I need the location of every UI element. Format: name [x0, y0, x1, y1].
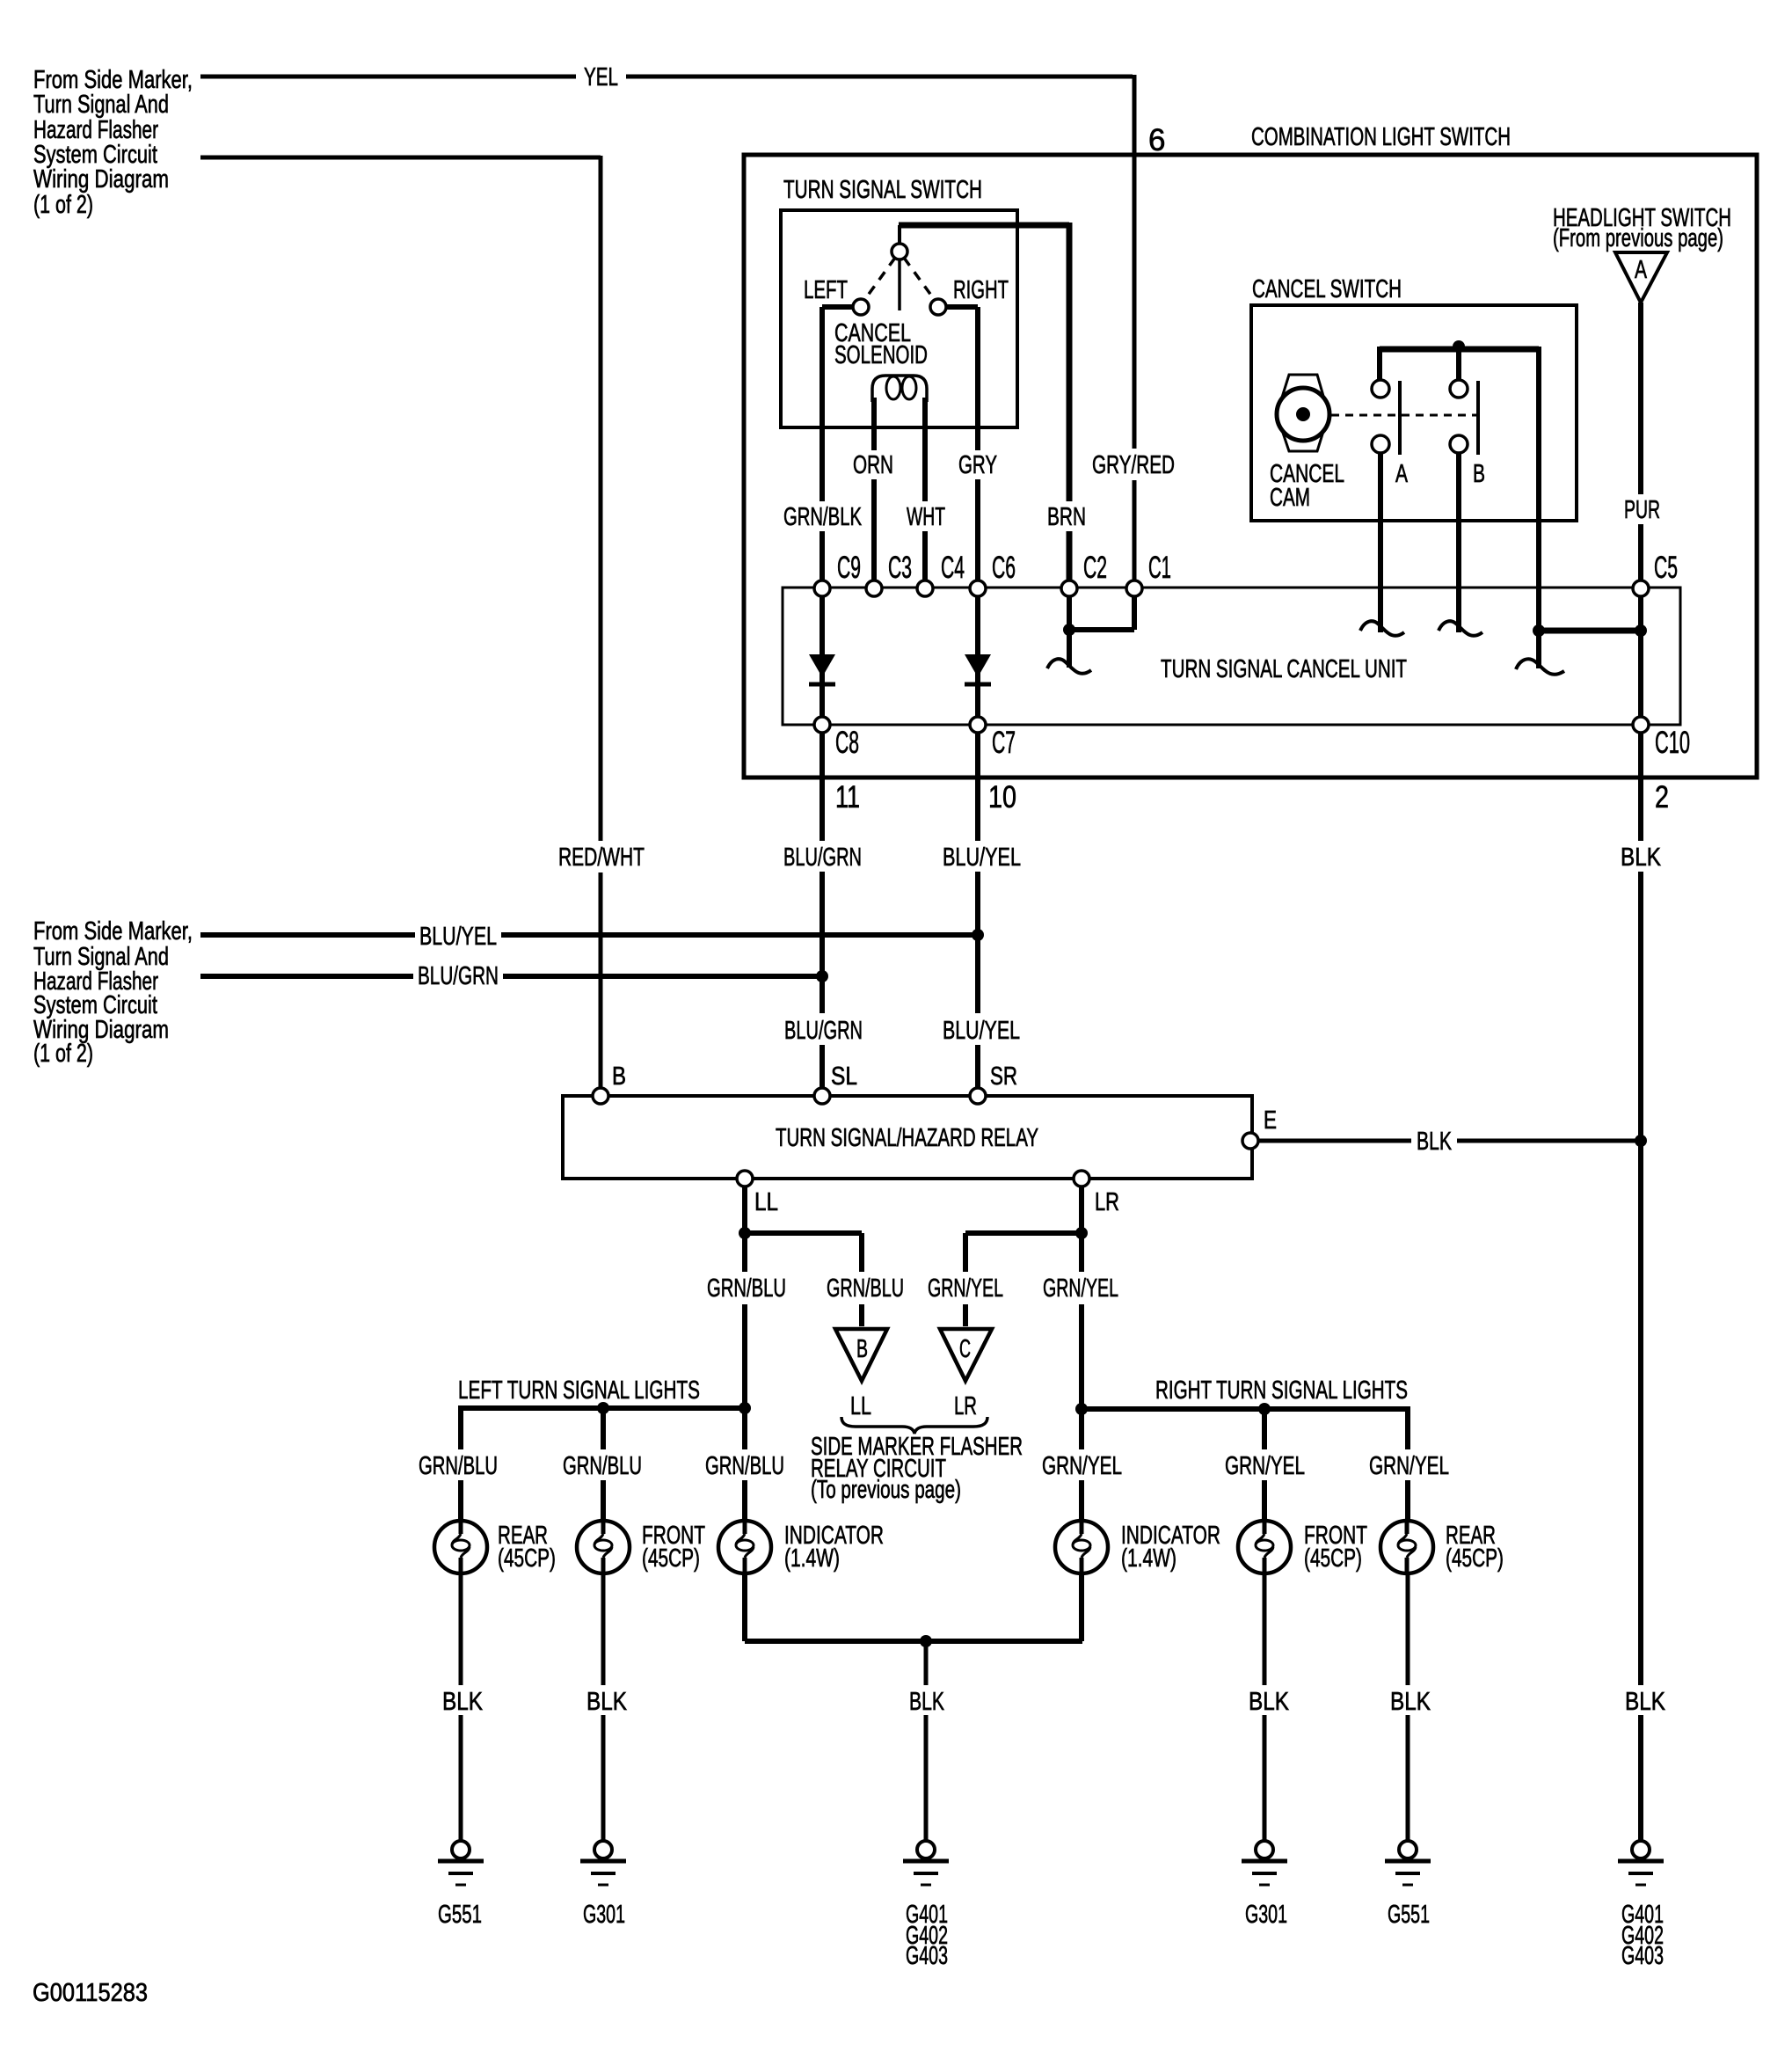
svg-text:LR: LR — [1095, 1188, 1119, 1216]
hook below C2 junction — [1047, 659, 1091, 674]
svg-text:BLU/YEL: BLU/YEL — [419, 923, 497, 951]
turn signal switch common contact — [892, 244, 907, 259]
wire left front bulb to ground — [601, 1573, 606, 1841]
svg-text:B: B — [1473, 460, 1485, 488]
svg-text:TURN SIGNAL/HAZARD RELAY: TURN SIGNAL/HAZARD RELAY — [776, 1124, 1038, 1152]
svg-text:C4: C4 — [941, 551, 965, 585]
svg-text:BLK: BLK — [586, 1688, 628, 1716]
note text block (middle left) — [33, 917, 193, 1068]
label BLU/GRN above SL — [780, 1013, 868, 1045]
svg-text:(45CP): (45CP) — [642, 1544, 700, 1573]
svg-text:GRY/RED: GRY/RED — [1092, 451, 1175, 479]
svg-text:SL: SL — [831, 1062, 857, 1091]
svg-text:SR: SR — [990, 1062, 1017, 1091]
wire right front drop — [1262, 1409, 1267, 1521]
hook below cancel switch right drop — [1516, 659, 1564, 675]
label BLU/GRN below C8 — [779, 841, 867, 872]
svg-text:(45CP): (45CP) — [1304, 1544, 1362, 1573]
wire cancel solenoid left lead to C3 — [871, 398, 877, 585]
svg-text:RED/WHT: RED/WHT — [558, 843, 645, 872]
wire feed 2 (horizontal, to RED/WHT) — [200, 156, 601, 160]
wire E to BLK — [1257, 1139, 1641, 1143]
label BRN — [1043, 501, 1090, 531]
relay pin LR — [1074, 1171, 1089, 1186]
wire link to PUR line — [1539, 628, 1641, 634]
turn signal cancel unit box — [783, 588, 1680, 725]
junction LR branch — [1075, 1227, 1088, 1239]
svg-text:GRN/YEL: GRN/YEL — [1042, 1452, 1122, 1480]
wire cancel switch contact A drop — [1378, 452, 1383, 632]
svg-text:GRN/YEL: GRN/YEL — [1043, 1274, 1118, 1303]
connector C4 — [917, 580, 933, 596]
ground G401 G402 G403 right — [1618, 1841, 1664, 1885]
junction BLU/GRN feed to SL line — [816, 970, 828, 982]
wire right front bulb to ground — [1263, 1573, 1267, 1841]
label BLK right front — [1244, 1685, 1293, 1715]
svg-text:COMBINATION LIGHT SWITCH: COMBINATION LIGHT SWITCH — [1251, 123, 1511, 151]
svg-text:(From previous page): (From previous page) — [1553, 224, 1723, 252]
wire turn signal switch common to BRN / C2 — [899, 223, 1069, 229]
cancel switch contact B bottom — [1450, 435, 1468, 453]
svg-text:GRN/YEL: GRN/YEL — [928, 1274, 1003, 1303]
relay pin SR — [970, 1088, 986, 1104]
svg-text:C1: C1 — [1148, 551, 1171, 585]
label GRN/BLU left bus col2 — [558, 1449, 646, 1480]
svg-text:LL: LL — [754, 1188, 778, 1216]
svg-text:10: 10 — [988, 780, 1016, 814]
wire BLU/GRN feed (horizontal) — [200, 974, 822, 979]
hook below cancel switch contact A — [1360, 621, 1404, 636]
cancel switch contact A top — [1372, 380, 1389, 398]
wire left rear drop — [458, 1405, 463, 1521]
wire YEL/GRY-RED vertical into pin 6 and C1 — [1133, 75, 1137, 582]
label BLK far right — [1621, 1685, 1673, 1715]
svg-text:C2: C2 — [1083, 551, 1107, 585]
wire left rear bulb to ground — [459, 1573, 463, 1841]
svg-text:GRN/BLU: GRN/BLU — [705, 1452, 784, 1480]
svg-text:(1.4W): (1.4W) — [784, 1544, 840, 1573]
svg-text:BLK: BLK — [442, 1688, 484, 1716]
junction link at PUR — [1533, 624, 1545, 637]
svg-text:RIGHT TURN SIGNAL LIGHTS: RIGHT TURN SIGNAL LIGHTS — [1155, 1376, 1408, 1405]
label GRN/BLU col2 — [822, 1272, 908, 1304]
svg-text:GRN/BLU: GRN/BLU — [419, 1452, 498, 1480]
svg-text:6: 6 — [1148, 123, 1165, 157]
svg-text:LL: LL — [850, 1392, 871, 1420]
svg-text:C3: C3 — [888, 551, 912, 585]
label GRN/BLU left bus col3 — [701, 1449, 789, 1480]
label BLK left front — [582, 1685, 631, 1715]
svg-text:SOLENOID: SOLENOID — [834, 341, 928, 369]
PARTS — [434, 244, 1667, 1885]
svg-text:GRN/YEL: GRN/YEL — [1369, 1452, 1449, 1480]
svg-text:LEFT TURN SIGNAL LIGHTS: LEFT TURN SIGNAL LIGHTS — [458, 1376, 700, 1405]
svg-text:B: B — [612, 1062, 626, 1091]
svg-text:CAM: CAM — [1270, 484, 1310, 512]
label GRN/YEL right bus col1 — [1038, 1449, 1129, 1480]
svg-text:BLK: BLK — [1390, 1688, 1431, 1716]
label SIDE MARKER FLASHER RELAY CIRCUIT — [811, 1433, 1023, 1504]
label PUR — [1620, 494, 1665, 524]
relay pin E — [1242, 1133, 1258, 1149]
BOXES — [563, 155, 1757, 1179]
label BLK left rear — [438, 1685, 487, 1715]
svg-text:LR: LR — [954, 1392, 977, 1420]
triangle B (side marker LL) — [835, 1329, 887, 1381]
wire BLK middle to ground — [924, 1641, 929, 1841]
wire relay LL down — [742, 1186, 747, 1521]
svg-text:GRY: GRY — [958, 451, 997, 479]
relay pin LL — [737, 1171, 753, 1186]
label ORN — [849, 450, 898, 479]
connector C7 — [970, 717, 986, 733]
label GRY/RED — [1088, 449, 1181, 480]
diode D1 (C9-C8) — [809, 654, 835, 677]
junction cancel switch top bus — [1453, 340, 1465, 353]
label GRN/YEL right bus col3 — [1365, 1449, 1453, 1480]
label BLK on E wire — [1411, 1126, 1457, 1156]
wire RIGHT contact to C6 — [943, 307, 978, 585]
wire left front drop — [601, 1408, 606, 1521]
wire cancel solenoid right lead to C4 — [922, 398, 928, 585]
bulb right rear — [1380, 1521, 1433, 1573]
wire BLU/YEL feed (horizontal) — [200, 932, 978, 938]
connector C6 — [970, 580, 986, 596]
svg-text:(45CP): (45CP) — [1446, 1544, 1504, 1573]
relay pin SL — [814, 1088, 830, 1104]
svg-text:Turn Signal And: Turn Signal And — [33, 91, 169, 119]
svg-text:BLU/YEL: BLU/YEL — [943, 843, 1021, 872]
svg-text:G301: G301 — [583, 1901, 625, 1929]
ground G301 right — [1242, 1841, 1287, 1885]
svg-text:BRN: BRN — [1047, 503, 1086, 531]
bulb left front — [577, 1521, 630, 1573]
svg-text:C8: C8 — [835, 726, 859, 760]
wire BLU/GRN C8 to relay SL — [820, 728, 825, 1091]
wire right rear bulb to ground — [1406, 1573, 1410, 1841]
label BLK right rear — [1386, 1685, 1435, 1715]
svg-text:TURN SIGNAL SWITCH: TURN SIGNAL SWITCH — [783, 176, 982, 204]
label RED/WHT — [554, 841, 649, 872]
wire BLK C10 down right side to ground — [1638, 730, 1643, 1841]
svg-text:(1 of 2): (1 of 2) — [33, 191, 93, 219]
label BLK middle — [905, 1685, 949, 1715]
ground labels G401 G402 G403 right — [1621, 1901, 1664, 1970]
wire right indicator bulb down — [1079, 1573, 1084, 1641]
svg-text:A: A — [1635, 256, 1647, 284]
bulb left rear — [434, 1521, 487, 1573]
svg-text:GRN/BLU: GRN/BLU — [563, 1452, 642, 1480]
svg-text:BLK: BLK — [1417, 1128, 1452, 1156]
svg-text:BLK: BLK — [909, 1688, 944, 1716]
junction E BLK — [1635, 1135, 1647, 1147]
svg-text:B: B — [856, 1335, 868, 1363]
turn signal/hazard relay box — [563, 1096, 1252, 1179]
svg-text:LEFT: LEFT — [804, 276, 848, 304]
diode D2 (C6-C7) — [965, 654, 991, 677]
triangle C (side marker LR) — [940, 1329, 992, 1381]
connector C1 — [1126, 580, 1142, 596]
bulb right front — [1238, 1521, 1291, 1573]
connector C3 — [866, 580, 882, 596]
svg-text:C7: C7 — [992, 726, 1016, 760]
wire indicator bottom bus — [745, 1639, 1082, 1644]
svg-text:G00115283: G00115283 — [33, 1979, 148, 2007]
svg-text:A: A — [1395, 460, 1408, 488]
cancel switch contact B top — [1450, 380, 1468, 398]
cancel switch box — [1251, 305, 1577, 521]
cancel switch contact B bar — [1476, 381, 1480, 455]
ground G301 left — [580, 1841, 626, 1885]
turn signal switch wiper (solid) — [898, 260, 901, 310]
wire left turn bus — [461, 1405, 745, 1411]
svg-text:PUR: PUR — [1624, 496, 1660, 524]
svg-text:BLK: BLK — [1625, 1688, 1666, 1716]
svg-text:BLU/GRN: BLU/GRN — [418, 962, 499, 990]
junction BLU/YEL feed to SR line — [972, 929, 984, 941]
svg-text:RIGHT: RIGHT — [953, 276, 1009, 304]
wire right turn bus — [1082, 1406, 1408, 1412]
bulb right indicator — [1055, 1521, 1108, 1573]
svg-text:GRN/BLK: GRN/BLK — [783, 503, 862, 531]
hook below cancel switch contact B — [1439, 621, 1482, 636]
wire LL branch to triangle B — [745, 1233, 862, 1326]
wire LR branch to triangle C — [965, 1233, 1082, 1326]
wire cancel switch top bus — [1380, 347, 1539, 353]
wire C6 to C7 through diode — [975, 592, 980, 721]
svg-text:C5: C5 — [1654, 551, 1678, 585]
ground G401 G402 G403 middle — [903, 1841, 949, 1885]
svg-text:GRN/YEL: GRN/YEL — [1225, 1452, 1305, 1480]
cancel switch dashed actuator line — [1331, 414, 1477, 417]
turn signal switch box — [781, 210, 1017, 427]
wire LEFT contact to C9 — [822, 307, 856, 585]
note text block (top left) — [33, 66, 193, 219]
junction LL branch — [739, 1227, 751, 1239]
label GRN/YEL col3 — [923, 1272, 1009, 1304]
svg-text:GRN/BLU: GRN/BLU — [707, 1274, 786, 1303]
turn signal switch RIGHT contact — [930, 299, 946, 315]
svg-text:(1 of 2): (1 of 2) — [33, 1040, 93, 1068]
label GRN/BLU left bus col1 — [414, 1449, 502, 1480]
label BLU/YEL below C7 — [938, 841, 1025, 872]
svg-text:C: C — [959, 1335, 971, 1363]
connector C10 — [1633, 717, 1649, 733]
label GRN/BLU col1 — [703, 1272, 791, 1304]
wire YEL feed (horizontal, top) — [200, 75, 1133, 79]
wire left indicator bulb down — [742, 1573, 747, 1641]
wire headlight switch A to C5 / PUR — [1638, 303, 1643, 582]
svg-text:E: E — [1264, 1106, 1277, 1135]
relay pin B — [593, 1088, 608, 1104]
svg-text:C10: C10 — [1655, 726, 1690, 760]
svg-text:WHT: WHT — [907, 503, 945, 531]
svg-text:CANCEL SWITCH: CANCEL SWITCH — [1252, 275, 1402, 303]
headlight switch triangle A — [1615, 252, 1667, 303]
wire cancel switch contact B drop — [1456, 452, 1461, 632]
wire C9 to C8 through diode — [820, 592, 825, 721]
svg-text:(45CP): (45CP) — [498, 1544, 556, 1573]
svg-text:(1.4W): (1.4W) — [1121, 1544, 1176, 1573]
bulb left indicator — [718, 1521, 771, 1573]
svg-text:G551: G551 — [1388, 1901, 1430, 1929]
svg-text:BLU/GRN: BLU/GRN — [784, 1017, 863, 1045]
svg-text:C9: C9 — [837, 551, 861, 585]
ground G551 left — [438, 1841, 484, 1885]
svg-text:G403: G403 — [1621, 1942, 1664, 1970]
svg-text:G551: G551 — [438, 1901, 482, 1929]
svg-text:(To previous page): (To previous page) — [811, 1476, 961, 1504]
label BLK below pin 2 — [1614, 841, 1670, 872]
connector C5 — [1633, 580, 1649, 596]
svg-text:BLK: BLK — [1249, 1688, 1290, 1716]
svg-text:BLU/YEL: BLU/YEL — [943, 1017, 1020, 1045]
combination light switch box — [744, 155, 1757, 777]
svg-text:From Side Marker,: From Side Marker, — [33, 917, 193, 945]
wire C2 to junction and hook — [1067, 588, 1072, 668]
label GRY — [954, 450, 1002, 479]
label GRN/YEL col4 — [1038, 1272, 1124, 1304]
svg-text:G301: G301 — [1245, 1901, 1287, 1929]
turn signal switch wiper dashes — [863, 258, 936, 303]
cancel switch contact A bottom — [1372, 435, 1389, 453]
ground labels G401 G402 G403 middle — [906, 1901, 948, 1970]
wire common contact stem — [898, 225, 901, 244]
svg-text:TURN SIGNAL CANCEL UNIT: TURN SIGNAL CANCEL UNIT — [1161, 655, 1407, 683]
cancel switch contact A bar — [1398, 381, 1402, 455]
brace under LL LR — [841, 1417, 987, 1434]
label GRN/YEL right bus col2 — [1220, 1449, 1311, 1480]
label BLU/YEL above SR — [938, 1013, 1024, 1045]
cancel cam body — [1277, 375, 1329, 451]
wire BLU/YEL C7 to relay SR — [975, 728, 980, 1091]
turn signal switch LEFT contact — [853, 299, 869, 315]
wire RED/WHT vertical to relay B — [599, 156, 603, 1091]
svg-text:ORN: ORN — [853, 451, 893, 479]
label WHT — [902, 501, 950, 531]
svg-text:GRN/BLU: GRN/BLU — [827, 1274, 904, 1303]
wire C2 junction elbow to C1 — [1069, 592, 1134, 630]
label GRN/BLK — [779, 501, 867, 531]
ground G551 right — [1385, 1841, 1431, 1885]
svg-text:YEL: YEL — [584, 63, 618, 91]
wire relay LR down — [1079, 1186, 1084, 1521]
cancel solenoid coil — [872, 376, 927, 402]
wire cancel switch right drop to hook — [1536, 347, 1541, 668]
connector C2 — [1061, 580, 1077, 596]
svg-text:C6: C6 — [992, 551, 1016, 585]
connector C8 — [814, 717, 830, 733]
svg-text:BLK: BLK — [1621, 843, 1662, 872]
svg-text:11: 11 — [835, 780, 860, 814]
svg-text:BLU/GRN: BLU/GRN — [783, 843, 862, 872]
wire right rear drop — [1405, 1406, 1410, 1521]
connector C9 — [814, 580, 830, 596]
svg-text:G403: G403 — [906, 1942, 948, 1970]
svg-text:Wiring Diagram: Wiring Diagram — [33, 165, 169, 193]
svg-text:2: 2 — [1655, 780, 1669, 814]
